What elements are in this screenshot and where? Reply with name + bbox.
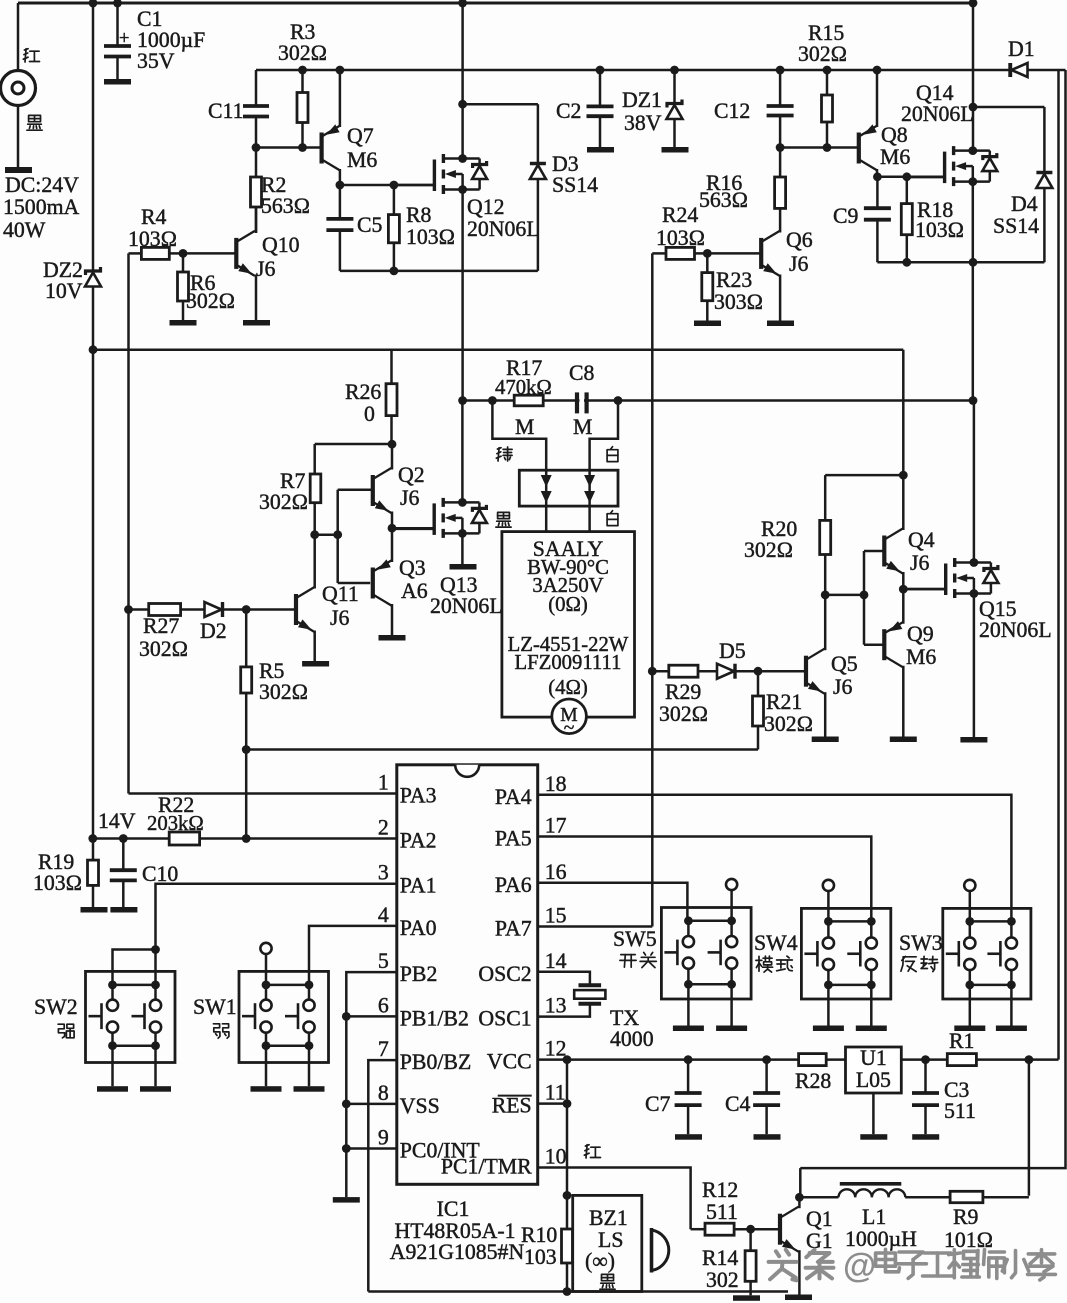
svg-text:302Ω: 302Ω xyxy=(278,41,327,65)
motor box SAALY xyxy=(502,532,635,718)
svg-text:Q4: Q4 xyxy=(908,528,935,552)
svg-text:6: 6 xyxy=(378,993,389,1017)
junction dot xyxy=(242,745,251,754)
junction dot xyxy=(563,1191,572,1200)
svg-text:M: M xyxy=(515,415,534,439)
svg-text:R8: R8 xyxy=(406,203,432,227)
junction dot xyxy=(596,66,605,75)
switch SW3 xyxy=(943,908,1031,999)
label 黑 xyxy=(29,115,41,121)
svg-text:11: 11 xyxy=(545,1081,566,1105)
junction dot xyxy=(119,834,128,843)
junction dot xyxy=(563,1099,572,1108)
transistor Q10 xyxy=(234,238,238,269)
junction dot xyxy=(89,0,98,7)
svg-text:Q3: Q3 xyxy=(399,556,426,580)
svg-text:J6: J6 xyxy=(400,486,419,510)
wire pin15 PA7 xyxy=(538,925,653,928)
junction dot xyxy=(488,396,497,405)
label hong red xyxy=(585,1145,589,1146)
svg-text:Q5: Q5 xyxy=(831,652,858,676)
junction dot xyxy=(670,66,679,75)
ground C7 xyxy=(675,1134,702,1140)
svg-text:302Ω: 302Ω xyxy=(186,289,235,313)
transistor Q7 xyxy=(320,133,324,164)
junction dot xyxy=(902,172,911,181)
svg-text:(∞): (∞) xyxy=(585,1249,615,1273)
resistor R29 xyxy=(652,670,669,673)
junction dot xyxy=(703,249,712,258)
svg-text:U1: U1 xyxy=(860,1046,887,1070)
ground C3 xyxy=(912,1134,939,1140)
ground U1 xyxy=(860,1134,887,1140)
ground C2 xyxy=(587,147,614,153)
svg-text:R12: R12 xyxy=(702,1178,738,1202)
wire pin2 PA2 xyxy=(93,837,397,840)
resistor R3 xyxy=(301,70,304,93)
resistor R2 xyxy=(255,148,258,178)
label moshi xyxy=(756,959,762,961)
junction dot xyxy=(614,396,623,405)
resistor R17 xyxy=(514,395,543,406)
resistor R19 xyxy=(92,839,95,861)
svg-text:302Ω: 302Ω xyxy=(764,712,813,736)
transistor Q9 xyxy=(882,629,886,660)
label bai white 2 xyxy=(611,511,613,514)
junction dot xyxy=(754,667,763,676)
junction dot xyxy=(776,66,785,75)
svg-text:LFZ0091111: LFZ0091111 xyxy=(515,652,622,674)
svg-text:7: 7 xyxy=(378,1037,389,1061)
svg-text:SS14: SS14 xyxy=(552,173,598,197)
svg-text:20N06L: 20N06L xyxy=(467,217,540,241)
svg-text:J6: J6 xyxy=(789,252,808,276)
wire motor green lead xyxy=(492,401,546,471)
svg-text:M: M xyxy=(573,415,592,439)
ground Q5 xyxy=(812,737,839,743)
switch SW4 xyxy=(801,908,890,999)
junction dot xyxy=(762,1055,771,1064)
svg-text:C7: C7 xyxy=(645,1092,671,1116)
wire pin17 PA5 xyxy=(538,837,872,922)
wire 24V right border inner xyxy=(1057,70,1060,1060)
junction dot xyxy=(970,589,979,598)
label qiang xyxy=(58,1024,65,1033)
svg-text:PA3: PA3 xyxy=(400,784,437,808)
wire R26 to R7 xyxy=(315,443,392,446)
svg-text:5: 5 xyxy=(378,949,389,973)
svg-text:DC:24V: DC:24V xyxy=(5,173,79,197)
svg-text:13: 13 xyxy=(545,994,567,1018)
svg-text:R10: R10 xyxy=(521,1223,557,1247)
svg-text:IC1: IC1 xyxy=(437,1197,470,1221)
svg-text:PC1/TMR: PC1/TMR xyxy=(441,1155,532,1179)
svg-text:20N06L: 20N06L xyxy=(901,102,974,126)
label kaiguan xyxy=(621,954,635,956)
ground R19 xyxy=(81,907,108,913)
svg-text:PA4: PA4 xyxy=(495,785,532,809)
wire pin14 OSC2 xyxy=(538,972,590,984)
ground R14 xyxy=(733,1295,760,1301)
junction dot xyxy=(969,103,978,112)
wire Q2 Q3 base link xyxy=(315,533,338,536)
svg-text:SW2: SW2 xyxy=(34,995,78,1019)
svg-text:3: 3 xyxy=(378,861,389,885)
svg-text:0: 0 xyxy=(364,402,375,426)
junction dot xyxy=(89,345,98,354)
label bai white 1 xyxy=(611,447,613,450)
svg-text:14: 14 xyxy=(545,949,567,973)
transistor Q8 xyxy=(857,133,861,164)
ground Q11 xyxy=(302,661,329,667)
svg-text:10: 10 xyxy=(545,1145,567,1169)
wire R12 to Q1 base xyxy=(751,1228,779,1231)
svg-text:PB1/B2: PB1/B2 xyxy=(400,1006,469,1030)
wire C9 R18 D4 bottom xyxy=(877,261,1044,264)
junction dot xyxy=(970,558,979,567)
svg-text:M6: M6 xyxy=(347,148,377,172)
resistor R14 xyxy=(749,1229,752,1251)
svg-text:18: 18 xyxy=(545,772,567,796)
svg-text:VSS: VSS xyxy=(400,1094,440,1118)
junction dot xyxy=(333,530,342,539)
svg-text:302Ω: 302Ω xyxy=(798,42,847,66)
svg-text:17: 17 xyxy=(545,814,567,838)
junction dot xyxy=(1025,1055,1034,1064)
resistor R10 xyxy=(566,1195,569,1229)
wire Q15 gate line xyxy=(903,588,945,591)
junction dot xyxy=(648,667,657,676)
junction dot xyxy=(458,154,467,163)
transistor Q4 xyxy=(882,536,886,567)
svg-text:563Ω: 563Ω xyxy=(261,194,310,218)
wire top +24V rail xyxy=(18,2,973,5)
junction dot xyxy=(860,591,869,600)
junction dot xyxy=(563,1287,572,1296)
wire VCC rail pin12 xyxy=(538,1058,799,1061)
wire pin4 PA0 xyxy=(309,926,397,985)
ground Q1 xyxy=(785,1295,812,1301)
switch SW5 xyxy=(661,908,751,1000)
junction dot xyxy=(458,498,467,507)
svg-text:R23: R23 xyxy=(716,268,752,292)
svg-text:C5: C5 xyxy=(357,213,383,237)
svg-text:J6: J6 xyxy=(330,606,349,630)
svg-text:Q8: Q8 xyxy=(881,123,908,147)
resistor R6 xyxy=(182,253,185,272)
svg-text:C8: C8 xyxy=(569,361,595,385)
label 红 xyxy=(24,49,28,50)
resistor R26 xyxy=(390,350,393,384)
svg-text:R27: R27 xyxy=(143,614,179,638)
junction dot xyxy=(151,945,160,954)
junction dot xyxy=(823,143,832,152)
capacitor C11 xyxy=(255,70,258,106)
svg-text:302Ω: 302Ω xyxy=(659,702,708,726)
wire +24 to DZ2 xyxy=(92,3,95,270)
svg-text:PA7: PA7 xyxy=(495,917,532,941)
junction dot xyxy=(342,1012,351,1021)
transistor Q2 xyxy=(371,475,375,506)
wire pin13 OSC1 xyxy=(538,1005,590,1016)
svg-text:J6: J6 xyxy=(256,257,275,281)
junction dot xyxy=(242,834,251,843)
svg-text:PA1: PA1 xyxy=(400,874,437,898)
body diode Q14 xyxy=(973,149,990,152)
svg-text:BZ1: BZ1 xyxy=(589,1206,628,1230)
svg-text:302Ω: 302Ω xyxy=(744,538,793,562)
junction dot xyxy=(342,1100,351,1109)
resistor R27 xyxy=(129,608,149,611)
buzzer BZ1 xyxy=(573,1195,642,1291)
svg-text:C9: C9 xyxy=(833,204,858,228)
svg-text:16: 16 xyxy=(545,860,567,884)
svg-text:G1: G1 xyxy=(806,1229,833,1253)
ground Q3 xyxy=(379,635,406,641)
capacitor C8 xyxy=(575,392,579,413)
diode D3 xyxy=(537,104,540,163)
capacitor C4 xyxy=(765,1060,768,1093)
svg-text:Q11: Q11 xyxy=(322,582,359,606)
svg-text:C11: C11 xyxy=(208,99,244,123)
resistor R8 xyxy=(393,185,396,215)
svg-text:PB2: PB2 xyxy=(400,962,438,986)
svg-text:C10: C10 xyxy=(142,862,178,886)
junction dot xyxy=(921,1055,930,1064)
svg-text:J6: J6 xyxy=(833,675,852,699)
resistor R12 xyxy=(691,1228,705,1231)
svg-text:M6: M6 xyxy=(906,645,936,669)
ground R6 xyxy=(170,320,197,326)
wire pin9 PC0 xyxy=(346,1147,397,1150)
junction dot xyxy=(563,1055,572,1064)
mosfet Q15 xyxy=(973,401,976,563)
wire 14V to Q4 xyxy=(902,350,905,530)
svg-text:PA6: PA6 xyxy=(495,873,532,897)
svg-text:R24: R24 xyxy=(662,203,698,227)
svg-text:PA0: PA0 xyxy=(400,916,437,940)
wire pin10 PC1/TMR red xyxy=(538,1168,691,1230)
svg-text:470kΩ: 470kΩ xyxy=(495,377,552,399)
svg-text:R26: R26 xyxy=(345,380,381,404)
resistor R28 xyxy=(799,1054,827,1066)
inductor L1 xyxy=(799,1196,838,1199)
wire node A rail y70 xyxy=(256,69,1010,72)
wire pin16 PA6 xyxy=(538,883,688,921)
transistor Q11 xyxy=(294,594,298,625)
svg-text:Q6: Q6 xyxy=(786,228,813,252)
junction dot xyxy=(242,605,251,614)
svg-text:DZ1: DZ1 xyxy=(622,88,662,112)
junction dot xyxy=(336,181,345,190)
switch SW2 xyxy=(86,971,176,1062)
svg-text:D4: D4 xyxy=(1011,192,1038,216)
svg-text:A6: A6 xyxy=(401,579,428,603)
svg-text:14V: 14V xyxy=(98,809,136,833)
junction dot xyxy=(124,605,133,614)
wire pin3 PA1 xyxy=(156,884,397,985)
svg-text:20N06L: 20N06L xyxy=(979,618,1052,642)
svg-text:L1: L1 xyxy=(862,1205,886,1229)
junction dot xyxy=(252,143,261,152)
junction dot xyxy=(342,1144,351,1153)
svg-text:@: @ xyxy=(843,1247,876,1285)
svg-text:38V: 38V xyxy=(624,111,662,135)
svg-text:~: ~ xyxy=(564,718,575,739)
svg-text:D5: D5 xyxy=(719,639,746,663)
svg-text:Q7: Q7 xyxy=(347,124,374,148)
capacitor C9 xyxy=(876,177,879,208)
diode D1 xyxy=(1008,63,1011,77)
svg-text:(0Ω): (0Ω) xyxy=(548,594,588,616)
svg-text:103Ω: 103Ω xyxy=(406,225,455,249)
wire R4 to Q10 base xyxy=(183,252,235,255)
svg-text:OSC2: OSC2 xyxy=(478,962,531,986)
svg-text:563Ω: 563Ω xyxy=(699,188,748,212)
svg-text:SW4: SW4 xyxy=(754,931,798,955)
label lv green xyxy=(497,448,501,449)
svg-text:302Ω: 302Ω xyxy=(139,637,188,661)
wire pin5 PB2 xyxy=(346,972,397,1197)
wire pin8 VSS xyxy=(346,1103,397,1106)
resistor R20 xyxy=(824,475,827,520)
body diode Q15 xyxy=(974,561,991,564)
junction dot xyxy=(179,249,188,258)
wire 14V rail xyxy=(93,348,903,351)
svg-text:103Ω: 103Ω xyxy=(128,227,177,251)
junction dot xyxy=(458,529,467,538)
svg-text:Q1: Q1 xyxy=(806,1207,833,1231)
wire pin1 PA3 xyxy=(129,792,397,795)
svg-text:9: 9 xyxy=(378,1126,389,1150)
svg-text:Q10: Q10 xyxy=(262,233,300,257)
junction dot xyxy=(390,181,399,190)
DC power connector J1 xyxy=(17,3,20,71)
junction dot xyxy=(310,530,319,539)
wire R24 to Q6 base xyxy=(707,252,759,255)
wire motor white lead xyxy=(590,401,618,471)
wire pin18 PA4 xyxy=(538,795,1012,922)
svg-text:103Ω: 103Ω xyxy=(33,871,82,895)
transistor Q1 xyxy=(778,1214,782,1245)
wire R17 C8 snubber xyxy=(463,399,973,402)
svg-text:SW5: SW5 xyxy=(613,927,657,951)
svg-text:PA5: PA5 xyxy=(495,827,532,851)
capacitor C12 xyxy=(779,70,782,106)
junction dot xyxy=(298,66,307,75)
wire D3 cathode xyxy=(463,103,538,106)
junction dot xyxy=(873,66,882,75)
junction dot xyxy=(968,146,977,155)
svg-text:10V: 10V xyxy=(45,279,83,303)
svg-text:OSC1: OSC1 xyxy=(478,1007,531,1031)
wire VCC branch to R9 xyxy=(1028,1060,1031,1196)
wire VCC to BZ1 xyxy=(566,1060,569,1196)
svg-text:R4: R4 xyxy=(141,205,167,229)
svg-text:RES: RES xyxy=(492,1094,532,1118)
junction dot xyxy=(902,258,911,267)
svg-text:2: 2 xyxy=(378,816,389,840)
mosfet Q13 xyxy=(461,401,464,503)
junction dot xyxy=(968,177,977,186)
wire Q7 gate line xyxy=(340,184,435,187)
svg-text:D1: D1 xyxy=(1008,37,1035,61)
svg-text:C12: C12 xyxy=(714,99,750,123)
wire Q13 gate line xyxy=(392,527,434,530)
svg-text:511: 511 xyxy=(706,1200,738,1224)
resistor R15 xyxy=(826,70,829,95)
resistor R21 xyxy=(757,671,760,696)
svg-text:PA2: PA2 xyxy=(400,829,437,853)
svg-text:302Ω: 302Ω xyxy=(259,680,308,704)
wire Q8 base node xyxy=(780,146,857,149)
capacitor C7 xyxy=(687,1060,690,1093)
junction dot xyxy=(969,258,978,267)
resistor R16 xyxy=(779,148,782,178)
junction dot xyxy=(823,66,832,75)
transistor Q6 xyxy=(759,238,763,269)
svg-text:15: 15 xyxy=(545,904,567,928)
svg-text:35V: 35V xyxy=(137,49,175,73)
junction dot xyxy=(458,0,467,7)
ground Q10 xyxy=(243,320,270,326)
mosfet Q12 xyxy=(461,3,464,159)
junction dot xyxy=(776,143,785,152)
svg-text:303Ω: 303Ω xyxy=(714,290,763,314)
svg-text:R21: R21 xyxy=(766,690,802,714)
svg-text:103Ω: 103Ω xyxy=(656,226,705,250)
label fanzhuan xyxy=(902,956,906,960)
wire pin6 PB1 xyxy=(346,1015,397,1018)
svg-text:(4Ω): (4Ω) xyxy=(548,677,588,699)
ground R23 xyxy=(694,321,721,327)
svg-text:302: 302 xyxy=(706,1268,739,1292)
regulator U1 L05 xyxy=(846,1047,902,1093)
junction dot xyxy=(390,267,399,276)
svg-text:SS14: SS14 xyxy=(993,214,1039,238)
resistor R22 xyxy=(169,832,199,845)
junction dot xyxy=(969,396,978,405)
svg-text:Q9: Q9 xyxy=(907,622,934,646)
junction dot xyxy=(298,143,307,152)
wire pin7 PB0 xyxy=(368,1060,397,1291)
junction dot xyxy=(821,591,830,600)
junction dot xyxy=(388,524,397,533)
junction dot xyxy=(684,1055,693,1064)
svg-text:C2: C2 xyxy=(556,99,581,123)
junction dot xyxy=(388,440,397,449)
ground Q9 xyxy=(890,737,917,743)
mosfet Q14 xyxy=(972,3,975,107)
svg-text:Q2: Q2 xyxy=(398,463,425,487)
junction dot xyxy=(873,172,882,181)
wire Q1 collector up xyxy=(798,1168,801,1197)
resistor R23 xyxy=(706,253,709,272)
wire SW2 top jog xyxy=(113,950,156,985)
svg-text:103: 103 xyxy=(524,1245,557,1269)
svg-text:M6: M6 xyxy=(880,145,910,169)
IC U-IC1 HT48R05A-1 body xyxy=(397,765,538,1185)
junction dot xyxy=(458,185,467,194)
zener DZ1 xyxy=(673,70,676,103)
crystal TX4000 xyxy=(579,983,602,987)
transistor Q3 xyxy=(371,568,375,599)
wire 24V right border outer xyxy=(1029,70,1066,1168)
diode D4 xyxy=(1043,107,1046,173)
svg-text:8: 8 xyxy=(378,1081,389,1105)
svg-text:203kΩ: 203kΩ xyxy=(147,813,204,835)
svg-text:D2: D2 xyxy=(200,619,227,643)
